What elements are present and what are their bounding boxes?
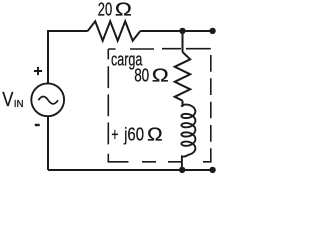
svg-text:Ω: Ω bbox=[115, 0, 132, 20]
wire node A down to load resistor bbox=[182, 31, 184, 52]
terminal top-right dot bbox=[209, 28, 215, 34]
svg-text:Ω: Ω bbox=[147, 123, 163, 144]
plus polarity bbox=[34, 67, 42, 75]
sine symbol bbox=[38, 97, 58, 104]
resistor R 20ohm (horizontal zigzag) bbox=[88, 21, 141, 40]
svg-text:Ω: Ω bbox=[152, 65, 169, 86]
node B dot bbox=[179, 167, 185, 173]
dashed box carga bbox=[108, 49, 211, 162]
node A dot bbox=[179, 28, 185, 34]
wire top-left: source top to resistor bbox=[48, 31, 88, 83]
svg-text:80: 80 bbox=[134, 65, 149, 86]
svg-text:j60: j60 bbox=[123, 123, 144, 144]
terminal bottom-right dot bbox=[209, 167, 215, 173]
minus polarity bbox=[35, 124, 40, 126]
svg-text:IN: IN bbox=[14, 99, 24, 110]
wire source bottom to bottom-left corner bbox=[47, 116, 49, 170]
inductor +j60ohm (coil) bbox=[181, 105, 195, 170]
svg-text:V: V bbox=[2, 88, 13, 111]
wire top-right to node and terminal bbox=[140, 30, 212, 32]
source VIN circle bbox=[31, 83, 64, 116]
resistor 80ohm (vertical zigzag) bbox=[175, 52, 191, 101]
svg-text:+: + bbox=[111, 123, 118, 144]
bottom wire bbox=[48, 169, 213, 171]
wire resistor to inductor bbox=[182, 101, 184, 107]
svg-text:20: 20 bbox=[98, 0, 112, 20]
